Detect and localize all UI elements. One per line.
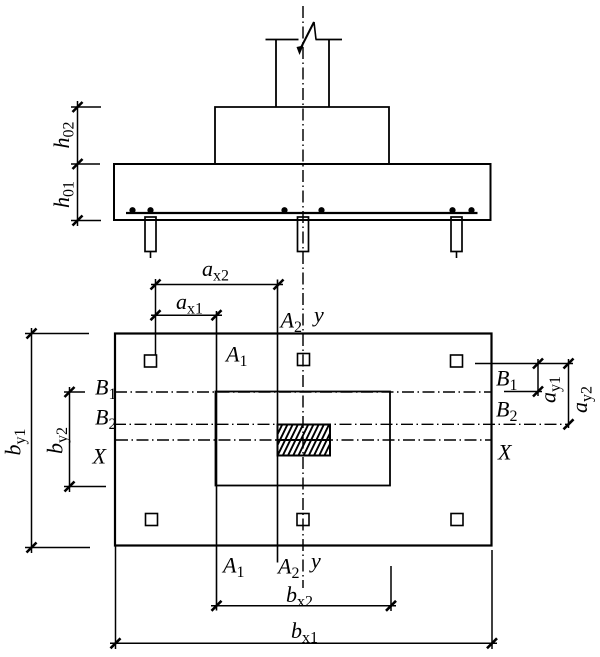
- dimension b_x2 (bottom): [211, 566, 396, 611]
- svg-text:y: y: [312, 302, 324, 327]
- node label X (right): [497, 440, 513, 465]
- dimension a_y1 / a_y2 (right): [475, 359, 574, 430]
- section line A1 (vertical): [216, 311, 218, 611]
- section line A2 (vertical): [277, 280, 279, 563]
- node label A1 (bottom): [221, 553, 244, 582]
- label b_x1: [291, 618, 318, 647]
- dimension a_x1 (top): [151, 310, 223, 320]
- node label B1 (left): [95, 375, 116, 404]
- label h01: [49, 181, 78, 208]
- pile squares (plan): [145, 354, 464, 526]
- wire: vertical centerline y-axis (dash-dot, elevation through plan): [302, 6, 304, 588]
- pile center (elevation): [298, 217, 309, 252]
- section line B2 (dash-dot horizontal): [114, 423, 569, 425]
- dimension h02 / h01 (left of elevation): [71, 101, 101, 226]
- node label y (bottom): [309, 548, 321, 573]
- node label B1 (right): [496, 366, 517, 395]
- label b_x2: [286, 582, 313, 611]
- centerline X (dash-dot horizontal): [116, 439, 492, 441]
- section line B1 (dash-dot horizontal): [115, 391, 492, 393]
- node label A2 (bottom): [276, 554, 299, 583]
- label b_y1: [1, 429, 30, 456]
- node label B2 (right): [496, 397, 517, 426]
- dimension b_x1 (bottom): [110, 546, 497, 649]
- label a_x1: [176, 289, 203, 318]
- pile right (elevation): [451, 217, 462, 258]
- node label A2 (top): [279, 308, 302, 337]
- node label X (left): [92, 444, 108, 469]
- node label A1 (inside plan): [224, 342, 247, 371]
- label a_y1: [536, 376, 565, 403]
- column cross-section (hatched) plan: [266, 423, 351, 458]
- label h02: [49, 122, 78, 149]
- column (elevation) with break line: [266, 22, 343, 107]
- step outline plan (inner rectangle): [216, 392, 391, 486]
- footing outline plan (outer rectangle): [115, 334, 492, 546]
- label a_x2: [202, 256, 229, 285]
- svg-text:y: y: [309, 548, 321, 573]
- node label B2 (left): [95, 405, 116, 434]
- svg-text:X: X: [497, 440, 513, 465]
- label b_y2: [43, 427, 72, 454]
- node label y (top): [312, 302, 324, 327]
- dimension b_y2 (left): [64, 387, 106, 492]
- dimension a_x2 (top): [151, 279, 284, 355]
- footing base slab (elevation): [114, 164, 491, 220]
- dimension b_y1 (left): [25, 328, 90, 553]
- rebar line with bar dots (elevation): [126, 207, 478, 213]
- label a_y2: [567, 386, 596, 413]
- pile left (elevation): [145, 217, 156, 258]
- footing step (elevation): [215, 107, 389, 164]
- svg-text:X: X: [92, 444, 108, 469]
